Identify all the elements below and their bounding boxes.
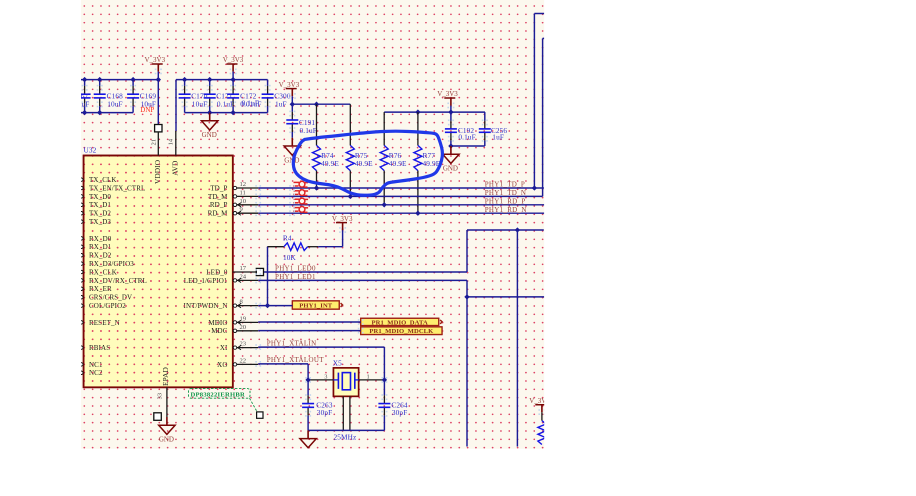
svg-text:EPAD: EPAD xyxy=(161,367,170,386)
svg-text:10uF: 10uF xyxy=(192,99,207,108)
svg-text:33: 33 xyxy=(157,393,164,400)
svg-text:19: 19 xyxy=(240,315,247,322)
svg-text:TD_P: TD_P xyxy=(210,184,227,192)
svg-text:11: 11 xyxy=(240,189,246,196)
svg-text:PR1_MDIO_MDCLK: PR1_MDIO_MDCLK xyxy=(369,328,434,335)
svg-text:RESET_N: RESET_N xyxy=(89,319,120,327)
svg-text:10uF: 10uF xyxy=(107,99,122,108)
svg-text:14: 14 xyxy=(168,138,175,145)
svg-text:DP83822IERHBR: DP83822IERHBR xyxy=(191,391,246,398)
svg-text:21: 21 xyxy=(150,139,157,146)
svg-text:VDDIO: VDDIO xyxy=(153,160,162,184)
svg-text:20: 20 xyxy=(240,324,247,331)
svg-text:V_3V3: V_3V3 xyxy=(437,90,458,98)
svg-text:1uF: 1uF xyxy=(492,132,504,141)
svg-text:12: 12 xyxy=(240,181,247,188)
svg-text:49.9E: 49.9E xyxy=(321,159,339,168)
svg-text:PHY1_XTALOUT: PHY1_XTALOUT xyxy=(267,356,325,364)
svg-text:X5: X5 xyxy=(333,358,342,367)
svg-text:U32: U32 xyxy=(84,146,97,155)
svg-text:24: 24 xyxy=(240,273,247,280)
svg-text:PHY1_RD_P: PHY1_RD_P xyxy=(485,197,526,205)
svg-text:RD_P: RD_P xyxy=(210,201,228,209)
svg-text:LED_1/GPIO1: LED_1/GPIO1 xyxy=(184,277,228,285)
svg-text:GND: GND xyxy=(443,165,458,173)
svg-text:49.9E: 49.9E xyxy=(389,159,407,168)
svg-text:23: 23 xyxy=(240,341,247,348)
svg-text:PR1_MDIO_DATA: PR1_MDIO_DATA xyxy=(372,319,429,326)
svg-text:TX_EN/TX_CTRL: TX_EN/TX_CTRL xyxy=(89,184,145,192)
svg-text:V_3V3: V_3V3 xyxy=(332,215,353,223)
svg-text:PHY1_RD_N: PHY1_RD_N xyxy=(485,206,527,214)
svg-text:49.9E: 49.9E xyxy=(355,159,373,168)
svg-text:AVD: AVD xyxy=(170,161,179,176)
svg-text:INT/PWDN_N: INT/PWDN_N xyxy=(184,302,228,310)
svg-text:PHY1_TD_N: PHY1_TD_N xyxy=(485,189,527,197)
svg-text:PHY1_XTALIN: PHY1_XTALIN xyxy=(267,339,317,347)
svg-text:10: 10 xyxy=(240,198,247,205)
svg-text:1uF: 1uF xyxy=(275,99,287,108)
svg-text:PHY1_INT: PHY1_INT xyxy=(299,302,333,309)
svg-text:22: 22 xyxy=(240,357,247,364)
svg-text:17: 17 xyxy=(240,265,247,272)
svg-text:3: 3 xyxy=(324,373,327,380)
svg-text:COL/GPIO2: COL/GPIO2 xyxy=(89,302,126,310)
svg-text:TD_M: TD_M xyxy=(208,193,228,201)
svg-text:V_3V3: V_3V3 xyxy=(279,81,300,89)
svg-text:0.1uF: 0.1uF xyxy=(458,133,475,142)
svg-text:RX_D3/GPIO3: RX_D3/GPIO3 xyxy=(89,260,134,268)
svg-text:TX_D0: TX_D0 xyxy=(89,193,111,201)
svg-text:PHY1_TD_P: PHY1_TD_P xyxy=(485,181,525,189)
svg-text:30pF: 30pF xyxy=(317,408,332,417)
svg-text:R4: R4 xyxy=(283,234,292,243)
svg-text:GND: GND xyxy=(202,131,217,139)
svg-text:25MHz: 25MHz xyxy=(334,433,358,442)
svg-text:V_3V3: V_3V3 xyxy=(144,56,165,64)
svg-text:1: 1 xyxy=(367,373,370,380)
svg-text:XI: XI xyxy=(220,344,228,352)
svg-text:PHY1_LED0: PHY1_LED0 xyxy=(275,264,316,272)
svg-text:0.1uF: 0.1uF xyxy=(242,99,259,108)
svg-text:PHY1_LED1: PHY1_LED1 xyxy=(275,273,316,281)
svg-text:V_3V3: V_3V3 xyxy=(223,56,244,64)
svg-text:0.1uF: 0.1uF xyxy=(300,126,317,135)
svg-text:TX_CLK: TX_CLK xyxy=(89,176,117,184)
svg-text:GND: GND xyxy=(159,436,174,444)
svg-text:10K: 10K xyxy=(283,253,297,262)
svg-text:30pF: 30pF xyxy=(392,408,407,417)
svg-text:0.1uF: 0.1uF xyxy=(217,99,234,108)
svg-text:DNP: DNP xyxy=(140,106,154,114)
